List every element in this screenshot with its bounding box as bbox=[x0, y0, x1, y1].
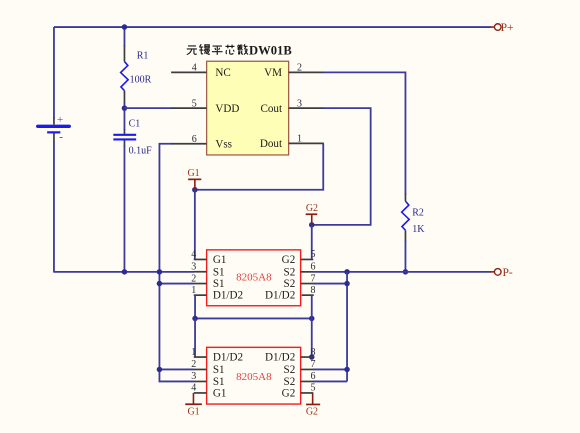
U3 pin 5 stub bbox=[301, 392, 314, 394]
svg-text:6: 6 bbox=[192, 134, 197, 145]
power port G2 (bottom) bbox=[306, 393, 320, 418]
svg-text:S2: S2 bbox=[284, 376, 296, 388]
U3 pin 6 stub bbox=[301, 380, 314, 382]
U2 pin 6 stub bbox=[301, 271, 314, 273]
U1 pin 4 stub bbox=[171, 71, 207, 73]
svg-text:4: 4 bbox=[192, 63, 197, 74]
svg-text:NC: NC bbox=[215, 67, 230, 79]
svg-text:8: 8 bbox=[310, 285, 315, 296]
svg-text:P-: P- bbox=[502, 267, 512, 279]
wire: top B+ rail bbox=[54, 26, 491, 28]
svg-text:6: 6 bbox=[310, 371, 315, 382]
svg-text:1: 1 bbox=[191, 347, 196, 358]
U2 pin 2 stub bbox=[194, 283, 207, 285]
svg-text:2: 2 bbox=[191, 273, 196, 284]
U3 pin 1 stub bbox=[194, 356, 207, 358]
wire: D rail down to U3 pin8 bbox=[311, 318, 313, 357]
svg-text:3: 3 bbox=[297, 99, 302, 110]
svg-text:2: 2 bbox=[297, 63, 302, 74]
power port G1 (bottom) bbox=[185, 393, 202, 418]
net label G1 (top) bbox=[187, 168, 201, 190]
svg-text:Cout: Cout bbox=[260, 103, 282, 115]
junction G1 node bbox=[192, 187, 198, 193]
junction P- rail / pin7 column bbox=[344, 269, 350, 275]
wire: R1 to C1 junction bbox=[123, 102, 125, 130]
svg-text:S2: S2 bbox=[284, 278, 296, 290]
terminal P+ bbox=[490, 22, 513, 34]
U2 pin 4 stub bbox=[194, 258, 207, 260]
svg-text:8: 8 bbox=[310, 347, 315, 358]
op-amp U1 DW01B body bbox=[207, 61, 289, 155]
svg-text:S1: S1 bbox=[213, 364, 225, 376]
U2 pin 7 stub bbox=[301, 283, 314, 285]
svg-text:4: 4 bbox=[191, 249, 196, 260]
U1 pin 3 stub bbox=[289, 107, 324, 109]
transistor U2 8205A8 body bbox=[207, 250, 301, 306]
U1 pin 1 stub bbox=[289, 142, 324, 144]
svg-text:+: + bbox=[57, 114, 63, 126]
svg-text:G1: G1 bbox=[187, 407, 199, 418]
junction R1/C1/VDD bbox=[122, 105, 128, 111]
junction pin7 column / U3 pin7 bbox=[344, 367, 350, 373]
capacitor C1 bbox=[113, 129, 136, 147]
svg-text:S1: S1 bbox=[213, 266, 225, 278]
svg-text:8205A8: 8205A8 bbox=[236, 272, 272, 284]
svg-text:5: 5 bbox=[310, 249, 315, 260]
svg-text:C1: C1 bbox=[129, 119, 141, 130]
resistor R2 bbox=[402, 193, 410, 241]
svg-text:VM: VM bbox=[264, 67, 282, 79]
wire: G1 node down to U2 pin 4 bbox=[194, 190, 196, 260]
U1 pin 5 stub bbox=[171, 107, 207, 109]
svg-text:G1: G1 bbox=[213, 388, 227, 400]
svg-text:2: 2 bbox=[191, 359, 196, 370]
svg-text:1: 1 bbox=[191, 285, 196, 296]
svg-text:DW01B: DW01B bbox=[249, 44, 292, 58]
U2 pin 3 stub bbox=[194, 271, 207, 273]
svg-text:3: 3 bbox=[191, 371, 196, 382]
wire: R1 column top bbox=[123, 27, 125, 46]
U3 pin 3 stub bbox=[194, 380, 207, 382]
svg-text:G2: G2 bbox=[306, 407, 318, 418]
svg-text:D1/D2: D1/D2 bbox=[265, 290, 295, 302]
wire: P- rail from U2 pin 6 to terminal bbox=[313, 271, 491, 273]
svg-text:G2: G2 bbox=[306, 203, 318, 214]
junction D rail right bbox=[309, 316, 315, 322]
svg-text:7: 7 bbox=[310, 359, 315, 370]
wire: U3 pin 7 link bbox=[313, 368, 347, 370]
svg-text:S2: S2 bbox=[284, 266, 296, 278]
U3 pin 7 stub bbox=[301, 368, 314, 370]
wire: U2 pin8 down to D rail bbox=[311, 295, 313, 318]
svg-text:G2: G2 bbox=[282, 254, 296, 266]
wire: U2 pin1 to D rail bbox=[194, 295, 196, 318]
wire: D rail bbox=[195, 317, 312, 319]
battery BT1 bbox=[38, 114, 70, 143]
U2 pin 1 stub bbox=[194, 294, 207, 296]
wire: B- rail (battery to S1 pins) bbox=[53, 271, 194, 273]
U2 pin 8 stub bbox=[302, 294, 314, 296]
wire: VM to R2 top bbox=[323, 72, 406, 194]
svg-text:G1: G1 bbox=[213, 254, 227, 266]
U1 title 无锡平芯微 (drawn strokes) bbox=[187, 44, 248, 55]
junction pin7 column / U2 pin7 bbox=[344, 281, 350, 287]
resistor R1 bbox=[121, 45, 129, 103]
svg-text:Dout: Dout bbox=[260, 138, 283, 150]
junction Vss column / B- rail bbox=[157, 269, 163, 275]
junction U3 pin8 bbox=[309, 354, 315, 360]
svg-text:8205A8: 8205A8 bbox=[236, 371, 272, 383]
svg-text:P+: P+ bbox=[501, 22, 514, 34]
svg-text:1K: 1K bbox=[412, 224, 425, 235]
wire: to U2 pin 2 bbox=[159, 283, 194, 285]
junction Vss column / U2 pin 2 bbox=[157, 281, 163, 287]
svg-text:R2: R2 bbox=[412, 208, 424, 219]
junction Vss column / U3 pin 2 bbox=[157, 367, 163, 373]
svg-text:Vss: Vss bbox=[215, 139, 232, 151]
svg-text:4: 4 bbox=[191, 383, 196, 394]
svg-text:0.1uF: 0.1uF bbox=[129, 145, 153, 156]
wire: C1 down to B- rail bbox=[123, 145, 125, 271]
svg-text:G2: G2 bbox=[282, 388, 296, 400]
U2 pin 5 stub bbox=[301, 258, 314, 260]
svg-text:3: 3 bbox=[191, 262, 196, 273]
wire: to U3 pin 2 bbox=[159, 368, 194, 370]
U3 pin 2 stub bbox=[194, 368, 207, 370]
transistor U3 8205A8 body bbox=[207, 347, 301, 404]
junction C1/B- rail bbox=[122, 269, 128, 275]
svg-text:S1: S1 bbox=[213, 278, 225, 290]
wire: G2 node down to U2 pin 5 bbox=[311, 225, 313, 260]
svg-text:-: - bbox=[59, 131, 63, 143]
svg-text:S2: S2 bbox=[284, 364, 296, 376]
wire: VDD wire to pin 5 bbox=[124, 107, 172, 109]
wire: U2 pin 7 link bbox=[313, 283, 347, 285]
svg-text:R1: R1 bbox=[137, 50, 149, 61]
net label G2 (top) bbox=[306, 203, 318, 225]
wire: Vss wire and long column bbox=[159, 144, 194, 382]
wire: battery column lower bbox=[53, 141, 55, 271]
junction D rail left bbox=[192, 316, 198, 322]
svg-text:1: 1 bbox=[297, 134, 302, 145]
U3 pin 4 stub bbox=[194, 392, 207, 394]
U3 pin 8 stub bbox=[301, 356, 314, 358]
U1 pin 2 stub bbox=[289, 71, 324, 73]
wire: battery column upper bbox=[53, 27, 55, 118]
wire: R2 bottom to P- rail bbox=[404, 241, 406, 272]
svg-text:100R: 100R bbox=[130, 74, 152, 85]
wire: Dout to G1 node bbox=[195, 143, 323, 189]
svg-text:5: 5 bbox=[192, 99, 197, 110]
svg-text:D1/D2: D1/D2 bbox=[213, 352, 243, 364]
junction at top rail / R1 bbox=[122, 24, 128, 30]
svg-text:5: 5 bbox=[310, 383, 315, 394]
U1 pin 6 stub bbox=[171, 143, 207, 145]
wire: pin7 column to U3 pin 6 bbox=[313, 380, 347, 382]
junction G2 node bbox=[309, 222, 315, 228]
svg-text:G1: G1 bbox=[187, 168, 199, 179]
svg-text:S1: S1 bbox=[213, 376, 225, 388]
wire: pin7 column bbox=[346, 272, 348, 382]
wire: Cout to G2 column bbox=[312, 108, 371, 225]
terminal P- bbox=[490, 267, 513, 279]
svg-text:D1/D2: D1/D2 bbox=[213, 290, 243, 302]
junction R2/P- rail bbox=[403, 269, 409, 275]
wire: D rail down to U3 pin1 bbox=[194, 318, 196, 357]
svg-text:VDD: VDD bbox=[215, 103, 239, 115]
svg-text:D1/D2: D1/D2 bbox=[265, 352, 295, 364]
